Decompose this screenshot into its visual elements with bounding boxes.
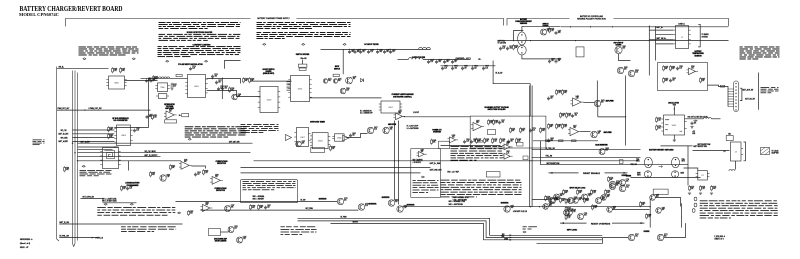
svg-text:U601: U601 [672,125,677,127]
resistor R413 [548,125,550,128]
svg-text:U301: U301 [298,88,303,90]
wire spi4 [73,140,115,142]
wire mid join [207,91,261,97]
wire bottom logic2 [664,223,686,237]
resistor R402 [510,129,512,132]
resistor R908 [188,211,190,214]
svg-text:RESET: RESET [665,119,669,121]
svg-text:SW_B+: SW_B+ [59,67,65,69]
svg-text:10K: 10K [665,68,668,70]
svg-text:.001: .001 [205,204,208,206]
note small block [80,170,112,176]
svg-text:22K: 22K [579,192,582,194]
resistor R604 horizontal [720,85,724,87]
svg-text:2.2K: 2.2K [114,70,117,72]
svg-text:Y600: Y600 [673,104,676,106]
svg-text:10K: 10K [565,192,568,194]
small box VRB [517,142,523,146]
svg-text:CONN J1: CONN J1 [678,23,685,25]
svg-text:2.2K: 2.2K [616,183,619,185]
note paragraph F [441,180,522,198]
capacitor C313 [368,50,370,52]
note paragraph J [700,200,778,218]
svg-text:.001: .001 [473,141,476,143]
arrow pwm out [85,109,87,111]
svg-text:SW C: SW C [682,161,686,163]
svg-text:OSCILLATOR: OSCILLATOR [668,102,680,105]
capacitor C815 [134,129,136,131]
wire ladder 2 [532,149,641,151]
resistor R610 [656,118,658,121]
svg-text:POWER CUT: POWER CUT [432,129,441,131]
note paragraph O [451,146,503,161]
small box discharge [209,229,221,236]
junction dots wire40 [513,40,514,41]
wire right amp join2 [581,131,591,133]
arrowhead ro l [561,222,564,224]
svg-text:2.2K: 2.2K [551,30,554,32]
capacitor C600 [677,67,679,69]
svg-text:22K: 22K [362,51,365,53]
wire spi1 [73,129,115,131]
capacitor C322 [444,60,446,62]
test point diamond 7 [343,43,346,45]
capacitor C402 [508,140,510,142]
svg-text:2.2K: 2.2K [532,129,535,131]
frame top border right segment [614,19,729,27]
svg-text:10K: 10K [550,97,553,99]
svg-text:22K: 22K [332,148,335,150]
junction dots filter row [349,49,350,50]
connector J3 [731,142,742,161]
ground sym1 [688,192,691,194]
svg-text:2.2K: 2.2K [576,97,579,99]
svg-text:2.2K: 2.2K [205,172,208,174]
svg-text:.001: .001 [214,75,217,77]
svg-text:SPI_CLK: SPI_CLK [61,130,67,132]
test point diamond E [188,138,191,140]
arrowhead stair 3 [510,239,513,241]
svg-text:D/A CONVERTER: D/A CONVERTER [114,119,129,122]
svg-text:10K: 10K [610,179,613,181]
resistor ladder RL8 [565,216,567,219]
arrowhead stair 2 [510,237,513,239]
box F2 text [413,180,439,193]
wire feedback long [310,97,382,99]
test point diamond 6 [302,43,305,45]
capacitor C310 [349,50,351,52]
svg-text:22K: 22K [672,68,675,70]
reset enable bracket line2 [605,172,628,174]
svg-text:CB1: CB1 [728,134,731,136]
wire input logic box bot [537,238,603,243]
svg-text:(SINGLE SHOT): (SINGLE SHOT) [263,73,275,75]
svg-text:.001: .001 [635,236,638,238]
small box driver B [299,68,306,70]
svg-text:U304: U304 [318,140,323,142]
svg-text:2.2K: 2.2K [502,47,505,49]
svg-text:22K: 22K [579,199,582,201]
wire conn j3 drop [735,161,737,170]
wire batt vert [514,31,524,41]
wire batt conn stem top [522,25,561,27]
IC U304 timer [312,133,328,149]
arrowhead ro r [641,222,644,224]
resistor R806 [229,88,231,91]
svg-text:10K: 10K [601,101,604,103]
wire cl out [404,116,471,118]
test point diamond 1 [83,58,86,60]
svg-text:10K: 10K [607,196,610,198]
svg-text:TRKL_SW: TRKL_SW [546,155,553,157]
IC U801 pulse width modulator [188,75,206,98]
resistor cluster R830 [243,79,245,82]
staircase wire 3 [331,224,603,240]
svg-text:22K: 22K [486,140,489,142]
resistor R600 [663,67,665,70]
svg-text:OSC1: OSC1 [665,124,669,126]
svg-text:2.2K: 2.2K [365,205,368,207]
resistor R411 [562,91,564,94]
svg-text:INVERTER: INVERTER [319,199,328,201]
svg-text:2.2K: 2.2K [495,122,498,124]
box G text [243,181,296,190]
resistor R904 [203,171,205,174]
svg-text:.001: .001 [607,192,610,194]
wire osc out [685,118,704,120]
svg-text:TRKL: TRKL [636,159,640,161]
svg-text:2.2K: 2.2K [635,71,638,73]
svg-text:2.2K: 2.2K [658,119,661,121]
capacitor C806 [146,79,148,81]
IC U601 oscillator [664,115,685,135]
svg-text:2.2K: 2.2K [555,199,558,201]
svg-text:2.2K: 2.2K [573,211,576,213]
arrow between switches [659,166,663,168]
svg-text:2.2K: 2.2K [558,92,561,94]
svg-text:R3xx 10K: R3xx 10K [301,58,307,60]
small box VRC [523,156,528,160]
svg-text:10K: 10K [231,207,234,209]
svg-text:SWITCHED TIMER: SWITCHED TIMER [310,121,325,123]
box temp monitor [658,63,708,91]
svg-text:.001: .001 [691,67,694,69]
note paragraph I2 [281,226,317,235]
resistor R802 [120,69,122,72]
resistor R403 [520,129,522,132]
capacitor C326 [462,66,464,68]
svg-text:22K: 22K [691,188,694,190]
svg-text:10K: 10K [622,48,625,50]
capacitor C330 [350,134,352,136]
wire ov det [192,166,206,169]
svg-text:SW 2 = SHUTDOWN: SW 2 = SHUTDOWN [449,204,463,206]
revert switch S1 upper oval [644,157,652,168]
small box CB100 [726,136,733,141]
svg-text:BATTERY CHARGER POWER SUPPLY: BATTERY CHARGER POWER SUPPLY [257,17,290,20]
wire boost bottom [251,80,292,82]
resistor R330 [330,147,332,150]
resistor R805 [171,84,173,89]
svg-text:.001: .001 [573,127,576,129]
wire long batt1 [254,160,639,162]
wire driver stem [302,60,304,64]
wire y160 left [78,160,182,162]
svg-text:TO J-BOX: TO J-BOX [772,150,779,152]
resistor R406 [484,139,486,142]
svg-text:2.2K: 2.2K [192,68,195,70]
capacitor C901 [195,173,197,175]
svg-text:T800: T800 [160,87,164,89]
svg-text:LOW = SHUTDOWN: LOW = SHUTDOWN [453,199,467,201]
inductor L301 [419,47,431,49]
svg-text:10K: 10K [515,47,518,49]
IC U900 with spiral [103,148,119,169]
svg-text:BT_SW: BT_SW [301,200,306,202]
circled num 1 [694,197,697,201]
svg-text:2.2K: 2.2K [485,67,488,69]
svg-text:.001: .001 [584,215,587,217]
reset override line [560,222,587,224]
svg-text:U300: U300 [267,99,272,101]
resistor R404 [540,129,542,132]
svg-text:10K: 10K [446,61,449,63]
svg-text:22K: 22K [395,201,398,203]
svg-text:22K: 22K [522,130,525,132]
svg-text:OUT: OUT [680,131,683,133]
revert switch S1 lower oval [644,171,651,178]
svg-text:22K: 22K [234,228,237,230]
svg-text:10K: 10K [672,79,675,81]
resistor RL4 [640,203,642,206]
IC U302 current limit [381,101,400,113]
svg-text:.001: .001 [379,51,382,53]
arrowhead reset l [550,172,553,174]
vertical wire right mid2 [625,76,627,146]
svg-text:MONITOR: MONITOR [694,55,702,57]
resistor R603 [700,79,702,82]
label resistor ladder note [241,124,279,133]
svg-text:SW 2 = REVERT: SW 2 = REVERT [253,199,265,201]
svg-text:10K: 10K [433,141,436,143]
wire batt alert out [78,142,253,144]
svg-text:SW B: SW B [637,174,641,176]
svg-text:10K: 10K [551,60,554,62]
svg-text:DC INPUT FILTER: DC INPUT FILTER [364,44,379,46]
wire J1 pin3 [649,38,673,40]
node dot osc [674,108,675,109]
svg-text:2.2K: 2.2K [155,78,158,80]
capacitor C820 [222,87,224,89]
capacitor C807 [150,79,152,81]
svg-text:2.2K: 2.2K [243,238,246,240]
resistor R602 [663,79,665,82]
capacitor C321 [436,60,438,62]
wire mid join2 [225,61,241,69]
svg-text:INVERTER: INVERTER [407,204,416,206]
capacitor C312 [360,50,362,52]
resistor R816 [108,135,110,138]
resistor R820 [153,77,155,80]
svg-text:SYSTEM: SYSTEM [702,36,709,38]
wire logic a [532,199,548,201]
wire spi misc [78,152,251,154]
bus line B [72,71,74,244]
bus line D [77,73,79,241]
svg-text:BT_PWM: BT_PWM [341,217,348,219]
capacitor C412 [548,139,550,141]
wire io vert2 [655,27,657,61]
svg-text:.001: .001 [626,187,629,189]
resistor R442 [700,187,702,190]
junction dots top wires [570,26,571,27]
wire J1 pin2 [656,34,674,36]
resistor R441 [689,187,691,190]
test point diamond lower2 [104,203,107,205]
svg-text:10K: 10K [386,51,389,53]
spiral antenna symbol [105,151,115,159]
wire ladder 3 [532,156,641,158]
wire NOT_CHRG_EN [81,198,103,200]
capacitor C410 [548,97,550,99]
feedback rect under opamp [165,120,177,123]
svg-text:NOISE SPECTRUM SHAPER: NOISE SPECTRUM SHAPER [187,31,213,34]
svg-text:RESET OVERRIDE: RESET OVERRIDE [591,223,611,225]
svg-text:.001: .001 [574,115,577,117]
resistor R905 [250,206,252,209]
svg-text:10K: 10K [476,122,479,124]
bracket J3 [744,142,746,161]
svg-text:DRIVER: DRIVER [626,176,631,178]
resistor R500 [513,46,515,49]
capacitor C320 [428,60,430,62]
svg-text:.001: .001 [511,207,514,209]
svg-text:U7: U7 [701,175,703,177]
resistor R433 [605,191,607,194]
svg-text:J3: J3 [735,151,737,153]
resistor RA horizontal [478,140,483,142]
svg-text:22K: 22K [642,204,645,206]
resistor R408 [500,139,502,142]
svg-text:MODEL CPN6074C: MODEL CPN6074C [19,13,59,17]
svg-text:2.2K: 2.2K [568,115,571,117]
IC U305 [335,134,345,141]
node dot bus1 [74,152,75,153]
ladder resistor R1h [546,140,551,142]
svg-text:10K: 10K [352,134,355,136]
resistor R401 [493,121,495,124]
wire pwm feed [141,77,188,79]
wire vert fb [221,78,223,100]
staircase wire 2 [298,221,603,238]
svg-text:TRKL: TRKL [682,159,686,161]
svg-text:10K: 10K [512,130,515,132]
svg-text:.001: .001 [665,80,668,82]
junction dots bottom wire [530,206,531,207]
resistor R432 [591,191,593,194]
svg-text:2.2K: 2.2K [494,140,497,142]
resistor R412b [566,114,568,117]
wire crossing d/a [114,127,148,129]
inductor L800 coil [159,77,170,78]
wire boost node [342,50,344,75]
svg-text:10K: 10K [605,150,608,152]
wire revert right2 [684,168,698,171]
svg-text:2.2K: 2.2K [593,192,596,194]
svg-text:.001: .001 [501,121,504,123]
svg-text:SWITCH: SWITCH [543,24,549,26]
svg-text:22K: 22K [490,122,493,124]
svg-text:DRIVER: DRIVER [543,26,550,28]
bus vertical right pair [529,86,531,207]
wire spi2 [73,133,115,135]
resistor RL1 [560,199,562,202]
test point diamond 3 [166,60,169,62]
note paragraph A2 [159,34,241,41]
svg-text:CONN/OVERCURRENT: CONN/OVERCURRENT [515,21,532,23]
wire U800 to U801 [125,80,158,82]
test point diamond lower3 [130,203,133,205]
resistor R801 [112,69,114,72]
svg-text:22K: 22K [626,181,629,183]
junction dots outrow [452,65,453,66]
svg-text:10K: 10K [184,161,187,163]
ground osc bottom [673,139,676,141]
svg-text:22K: 22K [558,126,561,128]
bus vertical right pair2 [531,86,533,207]
svg-text:.001: .001 [190,213,193,215]
svg-text:CHRG: CHRG [504,238,508,240]
wire pnp [619,54,631,61]
svg-text:.001: .001 [152,174,155,176]
wire long batt3 [241,172,421,174]
svg-text:BOOST SWITCH: BOOST SWITCH [263,69,275,71]
box amplitude scaling [470,116,546,148]
svg-text:.001: .001 [224,87,227,89]
resistor R450 [545,197,547,200]
svg-text:DRIVER: DRIVER [644,231,651,233]
capacitor C808 [190,67,192,69]
arrow stub1 [115,146,118,148]
svg-text:10K: 10K [338,80,341,82]
arrow BT_PWL [92,237,95,239]
svg-text:.001: .001 [328,80,331,82]
amp triangle left [286,135,292,141]
box G border [241,180,298,203]
svg-text:22K: 22K [123,188,126,190]
svg-text:BATTERY REVERT SWITCHES: BATTERY REVERT SWITCHES [649,149,674,152]
wire bottom logic [602,237,628,239]
resistor R443 [711,187,713,190]
svg-text:INPUT LOGIC: INPUT LOGIC [567,229,578,231]
svg-text:CHARGER + 14.2 V: CHARGER + 14.2 V [456,57,472,60]
capacitor C810 [146,115,148,117]
svg-text:RESET ENABLE: RESET ENABLE [583,172,600,175]
wire J1 pin4 [656,43,674,45]
wire ro vert2 [681,203,683,227]
capacitor C316 [390,50,392,52]
capacitor C803 [218,87,220,89]
arrow CR201 [179,114,182,116]
capacitor C324 [442,66,444,68]
svg-text:PULSE WIDTH MODULATOR: PULSE WIDTH MODULATOR [178,63,203,66]
svg-text:.001: .001 [149,116,152,118]
svg-text:.001: .001 [549,205,552,207]
wire amp1 out down [597,107,599,117]
test point diamond lower4 [178,212,181,214]
svg-text:22K: 22K [169,110,172,112]
svg-text:22K: 22K [173,85,176,87]
